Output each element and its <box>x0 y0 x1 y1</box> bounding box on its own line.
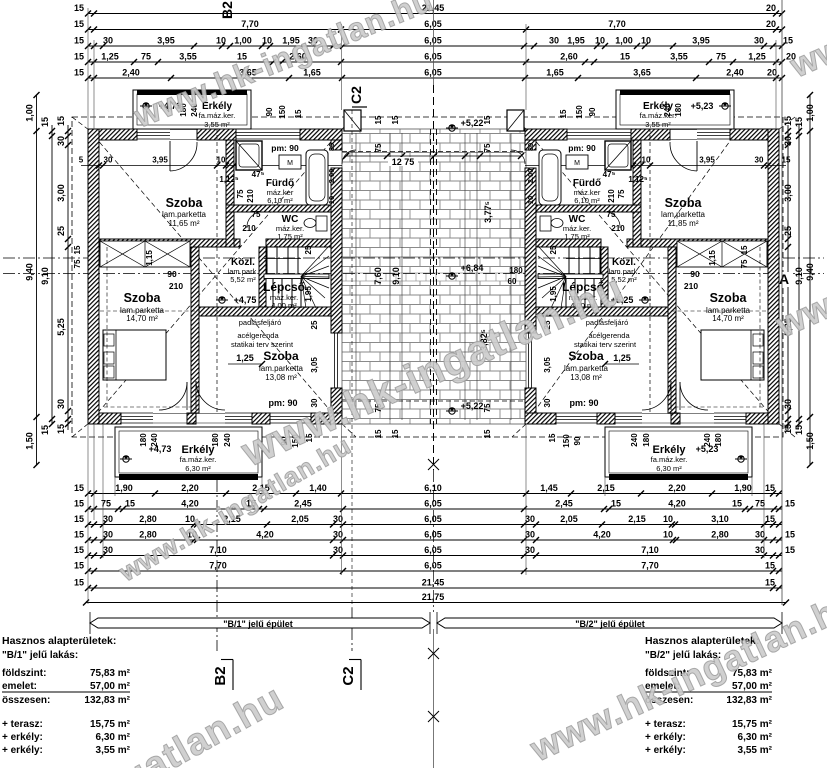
svg-text:240: 240 <box>663 103 672 117</box>
room label szoba top-left <box>162 196 207 228</box>
svg-text:21,75: 21,75 <box>422 592 445 602</box>
watermark top-right <box>784 0 827 86</box>
svg-text:+ terasz:: + terasz: <box>645 719 686 730</box>
room label kozl right <box>609 257 640 284</box>
svg-text:6,05: 6,05 <box>424 68 442 78</box>
svg-text:90: 90 <box>588 107 597 116</box>
svg-text:1,00: 1,00 <box>25 104 35 122</box>
svg-text:+5,22: +5,22 <box>461 118 484 128</box>
svg-text:15: 15 <box>794 117 804 127</box>
svg-text:C2: C2 <box>348 86 364 104</box>
svg-text:15: 15 <box>74 530 84 540</box>
svg-text:1,95: 1,95 <box>304 286 313 302</box>
svg-text:+ terasz:: + terasz: <box>2 719 43 730</box>
svg-text:10: 10 <box>526 196 535 204</box>
svg-text:4,20: 4,20 <box>593 530 611 540</box>
left unit outer walls <box>88 129 342 424</box>
terrace witness lines <box>356 133 511 420</box>
svg-text:20: 20 <box>767 68 777 78</box>
svg-text:9,10: 9,10 <box>391 267 401 285</box>
area table B/1 <box>2 635 131 756</box>
door dims 90 210 right <box>684 269 700 291</box>
terrace dim 7,60 rotated <box>373 267 383 285</box>
svg-text:1,50: 1,50 <box>25 432 35 450</box>
attic note left <box>231 318 294 349</box>
watermark bottom-left <box>113 430 356 588</box>
svg-text:6,10: 6,10 <box>424 483 442 493</box>
dimension row bottom 8 <box>83 592 789 606</box>
knee-wall dashed vertical right unit <box>759 247 761 407</box>
svg-text:1,40: 1,40 <box>309 483 327 493</box>
svg-text:240: 240 <box>223 433 232 447</box>
label pm 90 left-top <box>271 143 299 153</box>
svg-text:90: 90 <box>573 436 582 445</box>
area table B/2 <box>645 635 773 756</box>
dimension row top 1 (21,45) <box>74 3 785 17</box>
svg-text:4,20: 4,20 <box>668 499 686 509</box>
svg-text:15: 15 <box>765 561 775 571</box>
svg-text:+ erkély:: + erkély: <box>645 732 686 743</box>
axis dashed through right unit <box>649 100 651 412</box>
svg-text:Szoba: Szoba <box>124 291 162 305</box>
svg-text:180: 180 <box>714 433 723 447</box>
left unit windows <box>121 129 338 423</box>
building bar B/1 <box>90 612 430 634</box>
svg-text:+6,84: +6,84 <box>461 263 484 273</box>
svg-text:30: 30 <box>525 545 535 555</box>
svg-text:Szoba: Szoba <box>710 291 748 305</box>
svg-text:240: 240 <box>703 433 712 447</box>
dimension row top 4 <box>74 52 796 66</box>
svg-text:lam.parketta: lam.parketta <box>661 210 706 219</box>
svg-text:2,80: 2,80 <box>711 530 729 540</box>
svg-text:15: 15 <box>40 425 50 435</box>
svg-text:30: 30 <box>56 136 66 146</box>
watermark bottom-corner <box>0 677 291 768</box>
svg-text:75: 75 <box>740 259 749 268</box>
svg-text:lam.parketta: lam.parketta <box>259 364 304 373</box>
svg-text:7,10: 7,10 <box>641 545 659 555</box>
svg-text:30: 30 <box>543 398 552 407</box>
svg-text:15: 15 <box>765 514 775 524</box>
svg-text:15: 15 <box>74 36 84 46</box>
svg-text:A: A <box>779 271 789 287</box>
terrace brick paving <box>342 129 526 424</box>
svg-text:15: 15 <box>374 429 383 438</box>
vertical dimension left chain <box>56 116 71 434</box>
terrace dim 3,82-5 rotated <box>479 329 489 351</box>
svg-text:15: 15 <box>785 499 795 509</box>
svg-text:acélgerenda: acélgerenda <box>237 331 279 340</box>
svg-text:1,45: 1,45 <box>540 483 558 493</box>
svg-text:150: 150 <box>562 434 571 448</box>
svg-text:90: 90 <box>690 269 700 279</box>
svg-text:2,15: 2,15 <box>597 483 615 493</box>
svg-text:30: 30 <box>104 156 113 165</box>
svg-text:75: 75 <box>252 210 261 219</box>
svg-text:180: 180 <box>509 266 523 275</box>
vertical dimension left mid (9,10) <box>40 117 55 435</box>
svg-text:75: 75 <box>755 499 765 509</box>
svg-text:75: 75 <box>141 52 151 62</box>
svg-text:lam.parketta: lam.parketta <box>564 364 609 373</box>
balcony bottom-left (erkely 6,30) <box>115 427 262 480</box>
svg-text:20: 20 <box>766 19 776 29</box>
svg-text:3,05: 3,05 <box>310 357 319 373</box>
balcony top-right (erkely 3,55) <box>616 90 734 129</box>
right unit windows <box>529 129 747 423</box>
terrace dim 180/60 <box>508 266 524 286</box>
svg-text:1,90: 1,90 <box>734 483 752 493</box>
svg-text:3,00: 3,00 <box>56 184 66 202</box>
svg-text:15,75 m²: 15,75 m² <box>90 719 131 730</box>
svg-text:acélgerenda: acélgerenda <box>588 331 630 340</box>
terrace ridge band <box>342 273 526 281</box>
svg-text:75: 75 <box>483 143 492 152</box>
svg-text:10: 10 <box>217 156 226 165</box>
svg-text:3,95: 3,95 <box>157 36 175 46</box>
room label wc left <box>276 214 304 241</box>
svg-text:emelet:: emelet: <box>2 681 37 692</box>
terrace pillar top right <box>507 110 524 131</box>
wc bowl right <box>540 216 563 231</box>
svg-text:15: 15 <box>56 116 66 126</box>
svg-text:6,30 m²: 6,30 m² <box>185 464 211 473</box>
svg-text:15: 15 <box>783 116 793 126</box>
svg-text:15: 15 <box>74 545 84 555</box>
svg-text:2,05: 2,05 <box>560 514 578 524</box>
svg-text:25: 25 <box>549 245 558 254</box>
svg-text:statikai terv szerint: statikai terv szerint <box>574 340 637 349</box>
svg-text:15: 15 <box>374 115 383 124</box>
svg-text:1,00: 1,00 <box>615 36 633 46</box>
svg-text:180: 180 <box>211 433 220 447</box>
section axis B2 dashed through left unit <box>216 100 218 412</box>
section marker C2 top <box>348 86 367 107</box>
svg-text:6,05: 6,05 <box>424 561 442 571</box>
svg-text:2,20: 2,20 <box>181 483 199 493</box>
svg-text:12 75: 12 75 <box>392 157 415 167</box>
svg-text:15: 15 <box>74 68 84 78</box>
svg-text:15: 15 <box>483 429 492 438</box>
dim 1,25 left <box>228 353 265 367</box>
svg-text:2,45: 2,45 <box>555 499 573 509</box>
svg-text:13,08 m²: 13,08 m² <box>570 373 602 382</box>
section axis C2 dashed <box>351 110 353 608</box>
terrace small dims top <box>374 115 492 152</box>
svg-text:3,05: 3,05 <box>543 357 552 373</box>
stairs right unit (lepcso) <box>538 246 604 310</box>
dimension row bottom 4 <box>74 530 795 544</box>
svg-text:210: 210 <box>242 224 256 233</box>
svg-text:15: 15 <box>74 561 84 571</box>
watermark bottom-right <box>523 581 827 768</box>
svg-text:5,52 m²: 5,52 m² <box>230 275 256 284</box>
level marker +5,25 right <box>611 295 651 305</box>
svg-text:75: 75 <box>716 52 726 62</box>
svg-text:lam.parketta: lam.parketta <box>162 210 207 219</box>
svg-text:1,25: 1,25 <box>613 353 631 363</box>
svg-text:30: 30 <box>755 545 765 555</box>
dims 3,05/25/30 left <box>310 320 319 407</box>
tub dims right <box>526 143 535 204</box>
balcony dims top-left <box>179 103 303 119</box>
svg-text:3,95: 3,95 <box>152 156 168 165</box>
svg-text:+5,22: +5,22 <box>461 401 484 411</box>
svg-text:30: 30 <box>103 530 113 540</box>
bathtub left <box>306 150 328 205</box>
svg-text:"B/2" jelű épület: "B/2" jelű épület <box>575 619 645 629</box>
svg-text:6,30 m²: 6,30 m² <box>656 464 682 473</box>
svg-text:Szoba: Szoba <box>263 349 299 363</box>
vertical dimension left outer (9,40) <box>25 92 40 468</box>
section marker B2 top clipped <box>219 1 235 19</box>
svg-text:1,65: 1,65 <box>546 68 564 78</box>
room label wc right <box>563 214 591 241</box>
svg-text:7,10: 7,10 <box>209 545 227 555</box>
wc bowl left <box>304 216 327 231</box>
right unit interior walls <box>536 140 768 413</box>
svg-text:3,55 m²: 3,55 m² <box>738 745 773 756</box>
top szoba inner dimension row <box>79 156 342 180</box>
svg-text:10: 10 <box>327 196 336 204</box>
svg-text:4,00 m²: 4,00 m² <box>271 301 297 310</box>
svg-text:pm: 90: pm: 90 <box>568 143 596 153</box>
svg-text:+ erkély:: + erkély: <box>645 745 686 756</box>
svg-text:fa.máz.ker.: fa.máz.ker. <box>180 455 217 464</box>
watermark centre <box>234 264 631 475</box>
svg-text:1,75 m²: 1,75 m² <box>564 232 590 241</box>
room label szoba bottom-right <box>564 349 609 382</box>
svg-text:+ erkély:: + erkély: <box>2 732 43 743</box>
balcony bottom-right (erkely 6,30) <box>605 427 752 480</box>
svg-text:4,20: 4,20 <box>256 530 274 540</box>
svg-text:180: 180 <box>674 103 683 117</box>
svg-text:"B/1" jelű lakás:: "B/1" jelű lakás: <box>2 650 78 661</box>
svg-text:14,70 m²: 14,70 m² <box>712 314 744 323</box>
svg-text:15: 15 <box>782 156 791 165</box>
washing machine left <box>279 155 301 169</box>
svg-text:57,00 m²: 57,00 m² <box>90 681 131 692</box>
svg-text:4,20: 4,20 <box>181 499 199 509</box>
svg-text:75: 75 <box>101 499 111 509</box>
terrace centre dash-dot line <box>3 257 824 259</box>
svg-text:10: 10 <box>216 36 226 46</box>
watermark top <box>128 0 438 135</box>
svg-text:2,15: 2,15 <box>628 514 646 524</box>
svg-text:10: 10 <box>663 514 673 524</box>
watermark right-edge <box>769 163 827 346</box>
dimension row bottom 3 <box>74 514 782 528</box>
wc door dims right <box>607 210 626 233</box>
svg-text:150: 150 <box>278 105 287 119</box>
roof hip diagonals right unit <box>526 117 795 437</box>
svg-text:1,65: 1,65 <box>303 68 321 78</box>
svg-text:90: 90 <box>167 269 177 279</box>
level marker +4,75 left <box>216 295 256 305</box>
svg-text:6,30 m²: 6,30 m² <box>96 732 131 743</box>
vertical dimension right outer (9,40) <box>805 92 815 468</box>
svg-text:1,12⁵: 1,12⁵ <box>219 175 239 184</box>
svg-text:1,75 m²: 1,75 m² <box>277 232 303 241</box>
terrace level +5,22 bottom <box>446 401 483 414</box>
door dims 90 210 left <box>167 269 183 291</box>
svg-text:10: 10 <box>663 530 673 540</box>
svg-text:30: 30 <box>103 36 113 46</box>
svg-text:57,00 m²: 57,00 m² <box>732 681 773 692</box>
dimension row top 2 (7,70 / 6,05 / 7,70) <box>74 19 785 33</box>
svg-text:132,83 m²: 132,83 m² <box>726 695 772 706</box>
terrace level +6,84 <box>446 263 483 279</box>
roof hip diagonals left unit <box>72 117 341 437</box>
terrace small dims bottom <box>374 403 492 438</box>
svg-text:15: 15 <box>783 36 793 46</box>
svg-text:Szoba: Szoba <box>166 196 204 210</box>
svg-text:15: 15 <box>765 483 775 493</box>
svg-text:padlásfeljáró: padlásfeljáró <box>239 318 282 327</box>
svg-text:7,70: 7,70 <box>608 19 626 29</box>
witness lines bottom <box>88 424 764 604</box>
svg-text:21,45: 21,45 <box>422 578 445 588</box>
dimension row bottom 7 <box>74 578 782 592</box>
right unit outer walls <box>525 129 779 424</box>
svg-text:10: 10 <box>641 36 651 46</box>
svg-text:90: 90 <box>265 107 274 116</box>
svg-text:25: 25 <box>783 226 793 236</box>
dim 1,25 right <box>602 353 639 367</box>
room label szoba top-right <box>661 196 706 228</box>
svg-text:1,90: 1,90 <box>115 483 133 493</box>
svg-text:210: 210 <box>607 189 616 203</box>
witness lines top <box>88 0 782 605</box>
svg-text:15: 15 <box>740 245 749 254</box>
svg-text:75: 75 <box>617 189 626 198</box>
wardrobe right unit <box>677 241 767 267</box>
svg-text:25: 25 <box>310 320 319 329</box>
svg-text:+4,75: +4,75 <box>234 295 257 305</box>
svg-text:25: 25 <box>56 226 66 236</box>
svg-text:210: 210 <box>246 189 255 203</box>
roof eaves dashed outline <box>72 117 783 437</box>
svg-text:15: 15 <box>794 425 804 435</box>
terrace dim 9,10 rotated <box>391 267 401 285</box>
knee-wall dashed vertical left unit <box>106 247 108 407</box>
svg-text:2,40: 2,40 <box>726 68 744 78</box>
room label szoba bottom-left <box>259 349 304 382</box>
left unit knee-wall dashed line <box>104 406 196 408</box>
svg-text:75: 75 <box>374 143 383 152</box>
section marker A <box>777 271 793 287</box>
svg-text:30: 30 <box>783 399 793 409</box>
svg-text:6,10 m²: 6,10 m² <box>574 196 600 205</box>
svg-text:75: 75 <box>236 189 245 198</box>
svg-text:3,55 m²: 3,55 m² <box>645 120 671 129</box>
stairs dims left <box>304 245 313 302</box>
svg-text:15: 15 <box>785 530 795 540</box>
svg-text:180: 180 <box>642 433 651 447</box>
svg-text:földszint:: földszint: <box>2 668 46 679</box>
svg-text:pm: 90: pm: 90 <box>271 143 299 153</box>
svg-text:6,05: 6,05 <box>424 52 442 62</box>
terrace level +5,22 top <box>446 118 483 131</box>
dim 1,12-5 right <box>628 175 648 184</box>
svg-text:15: 15 <box>74 499 84 509</box>
svg-text:30: 30 <box>755 530 765 540</box>
svg-text:15: 15 <box>74 3 84 13</box>
svg-text:15: 15 <box>785 545 795 555</box>
vertical dimension right mid (9,10) <box>794 117 804 435</box>
svg-text:15,75 m²: 15,75 m² <box>732 719 773 730</box>
svg-text:15: 15 <box>74 514 84 524</box>
svg-text:1,00: 1,00 <box>805 104 815 122</box>
svg-text:5,25: 5,25 <box>56 318 66 336</box>
svg-text:1,95: 1,95 <box>567 36 585 46</box>
svg-text:3,95: 3,95 <box>692 36 710 46</box>
svg-text:15: 15 <box>40 117 50 127</box>
svg-text:15: 15 <box>391 429 400 438</box>
svg-text:1,12⁵: 1,12⁵ <box>628 175 648 184</box>
svg-text:M: M <box>287 160 293 167</box>
svg-text:75: 75 <box>73 259 82 268</box>
svg-text:30: 30 <box>783 136 793 146</box>
svg-text:3,00: 3,00 <box>783 184 793 202</box>
attic note right <box>574 318 637 349</box>
svg-text:M: M <box>574 160 580 167</box>
balcony dims top-right <box>559 103 683 119</box>
svg-text:30: 30 <box>327 143 336 151</box>
svg-text:Lépcső: Lépcső <box>263 280 305 294</box>
svg-text:30: 30 <box>103 545 113 555</box>
svg-text:210: 210 <box>611 224 625 233</box>
svg-text:150: 150 <box>575 105 584 119</box>
svg-text:11,85 m²: 11,85 m² <box>668 219 699 228</box>
tub dims left <box>327 143 336 204</box>
centre symmetry line <box>428 0 439 768</box>
building bar B/2 <box>437 612 782 634</box>
room label furdo right <box>573 178 601 205</box>
headroom dashed line left unit <box>100 310 196 312</box>
svg-text:9,10: 9,10 <box>794 267 804 285</box>
svg-text:240: 240 <box>150 433 159 447</box>
svg-text:30: 30 <box>103 514 113 524</box>
wardrobe left unit <box>100 241 190 267</box>
svg-text:2,00: 2,00 <box>327 169 336 184</box>
terrace pillar top left <box>344 110 361 131</box>
svg-text:2,80: 2,80 <box>139 514 157 524</box>
svg-text:3,55: 3,55 <box>670 52 688 62</box>
svg-text:15: 15 <box>483 115 492 124</box>
svg-text:15: 15 <box>56 424 66 434</box>
label pm 90 right-top <box>568 143 596 153</box>
dimension row bottom 5 <box>74 545 795 559</box>
room label furdo left <box>266 178 294 205</box>
svg-text:Szoba: Szoba <box>568 349 604 363</box>
svg-text:7,70: 7,70 <box>641 561 659 571</box>
svg-text:13,08 m²: 13,08 m² <box>265 373 297 382</box>
svg-text:3,65: 3,65 <box>633 68 651 78</box>
svg-text:fa.máz.ker.: fa.máz.ker. <box>651 455 688 464</box>
svg-text:B2: B2 <box>212 666 229 685</box>
terrace roof dashed lines <box>342 117 526 437</box>
svg-text:5: 5 <box>79 156 84 165</box>
section axis C2 line bottom <box>351 608 353 651</box>
wc door dims left <box>242 210 261 233</box>
left wall small dims <box>73 245 82 268</box>
door thresholds <box>153 130 714 424</box>
svg-text:30: 30 <box>549 36 559 46</box>
svg-text:30: 30 <box>525 514 535 524</box>
balcony dims bottom-left <box>139 433 314 448</box>
